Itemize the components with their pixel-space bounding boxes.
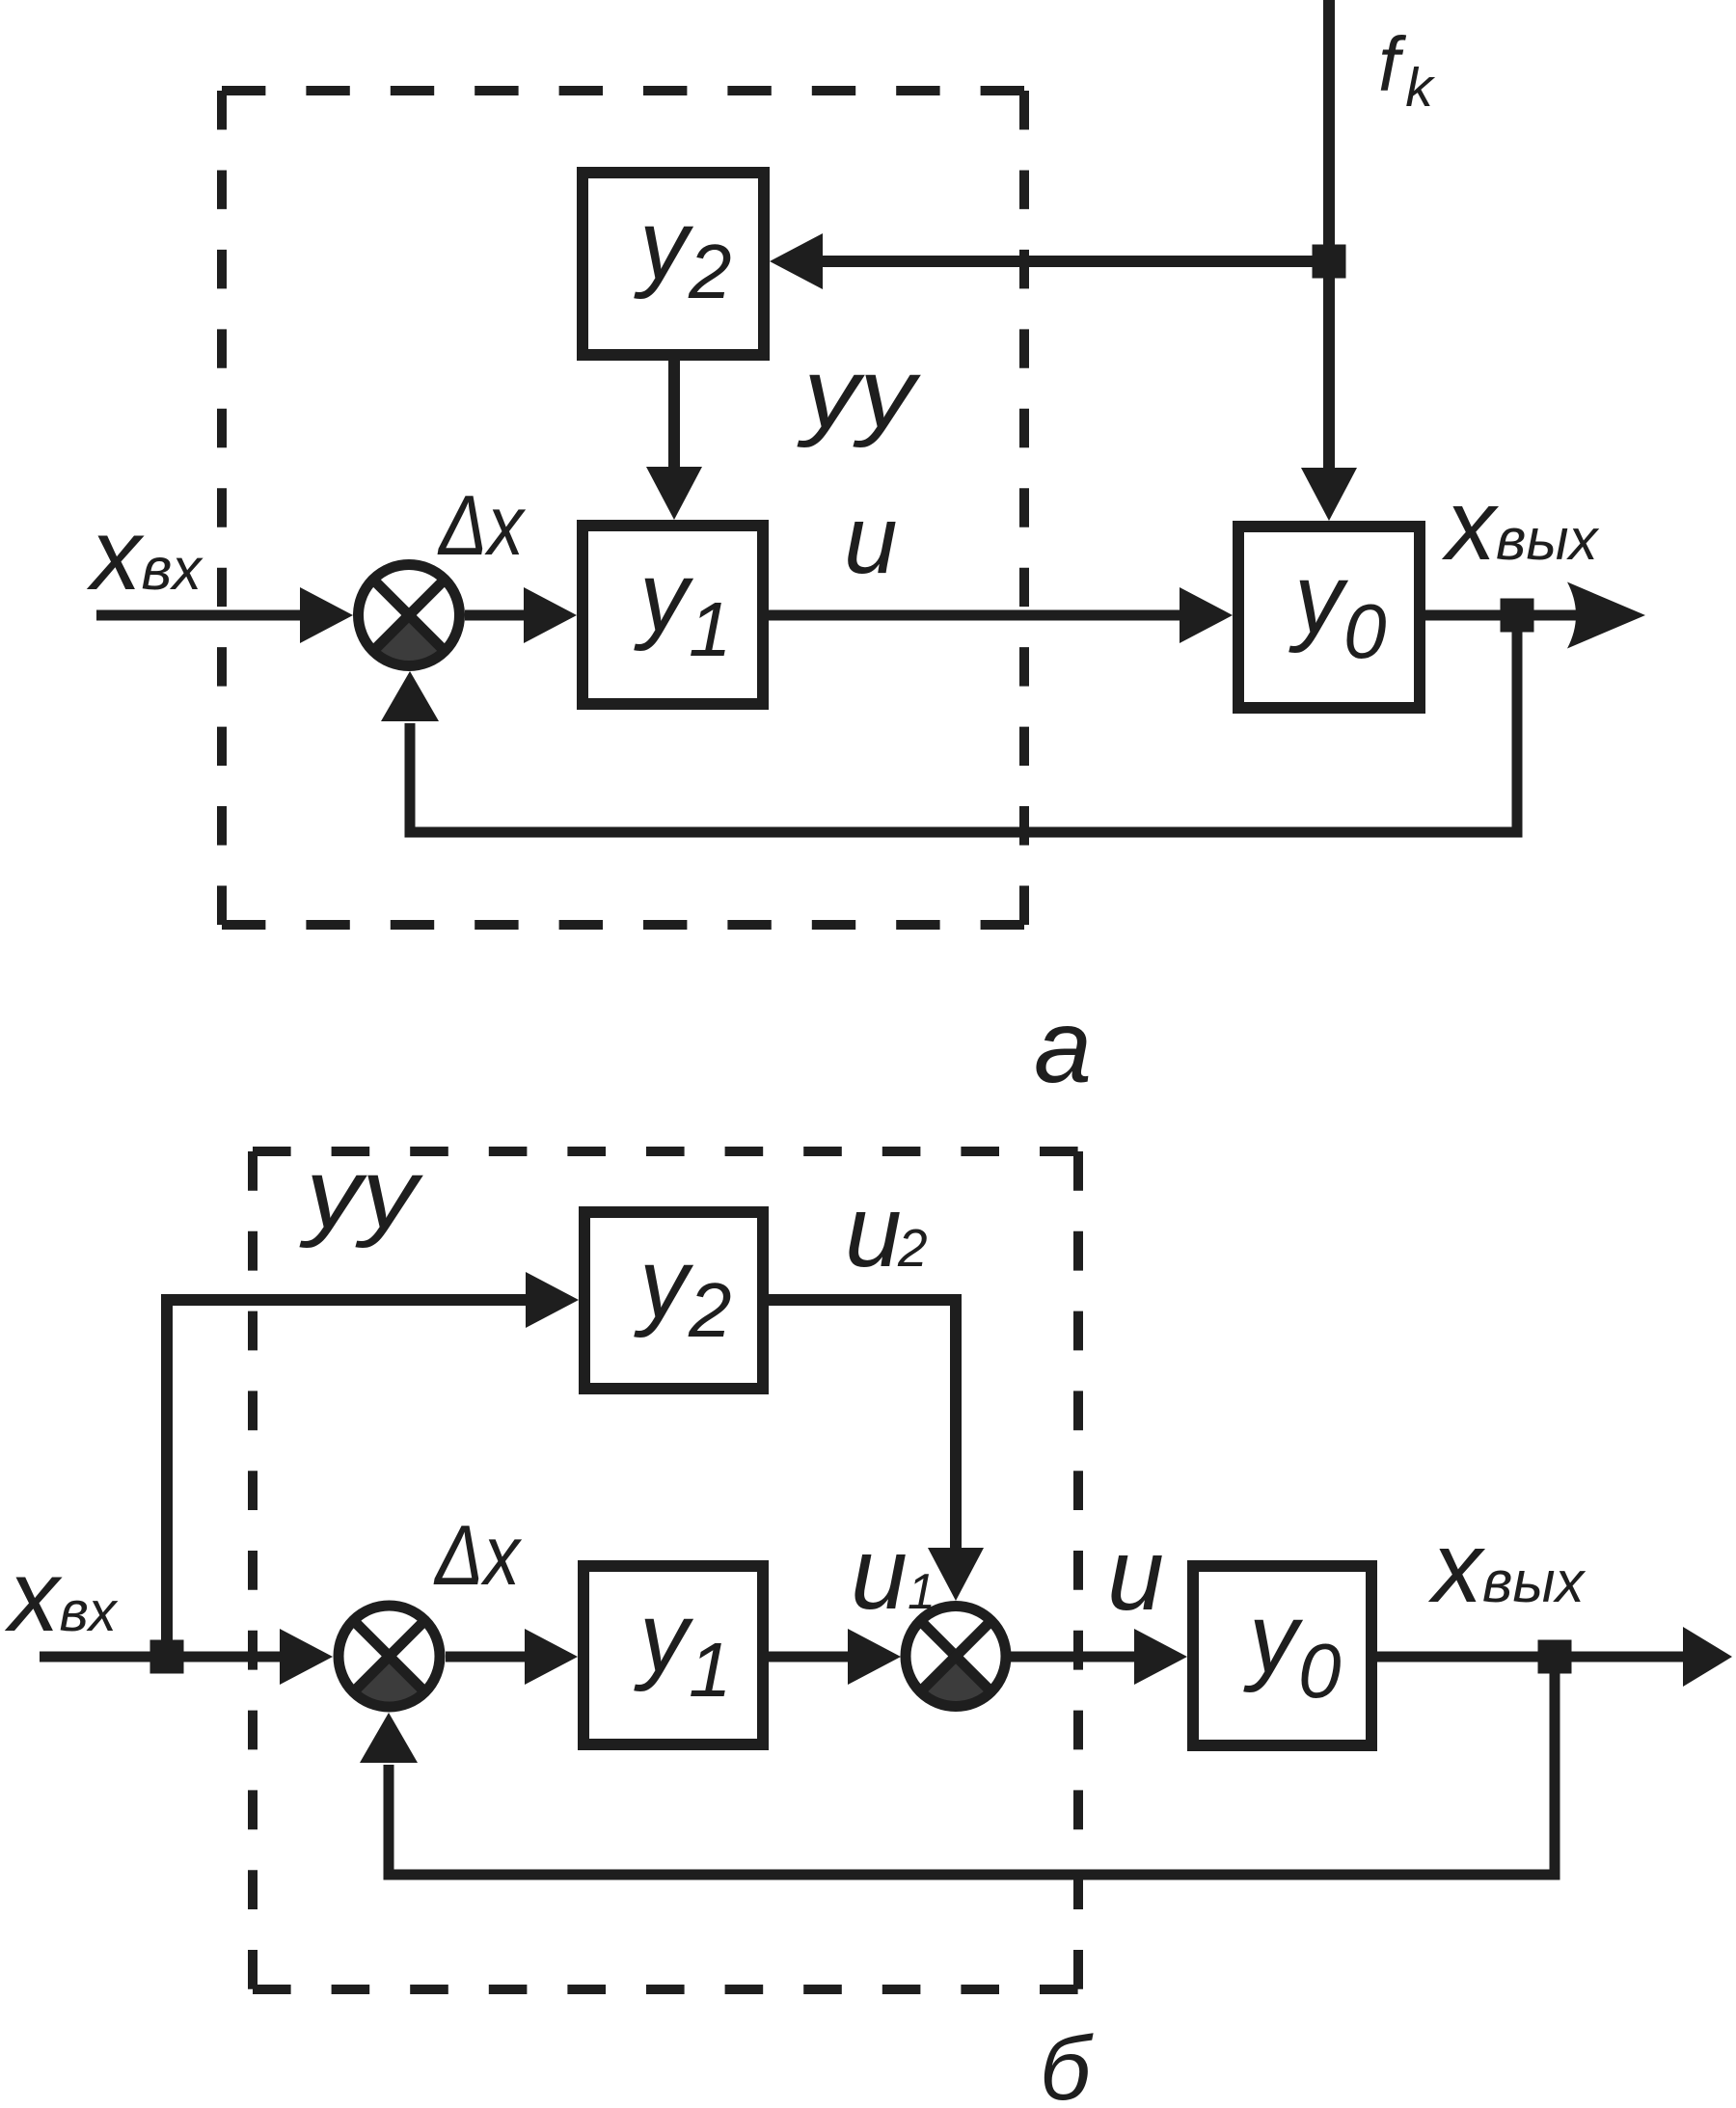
block У1 (diagram a) bbox=[583, 526, 763, 704]
arrowhead f_k into У0 top bbox=[1301, 468, 1357, 521]
arrowhead into У1 top bbox=[646, 467, 702, 520]
junction node output b bbox=[1538, 1640, 1572, 1674]
dashed box УУ (diagram a) left side bbox=[217, 91, 227, 925]
arrowhead into summing junction 1 (b) bbox=[280, 1629, 333, 1685]
arrowhead into У0 left (b) bbox=[1134, 1629, 1187, 1685]
block У0 (diagram b) bbox=[1193, 1566, 1371, 1745]
wire branch f_k to У2 bbox=[821, 256, 1329, 267]
svg-text:хвх: хвх bbox=[4, 1540, 119, 1653]
dashed box УУ (diagram a) right side bbox=[1019, 91, 1029, 925]
svg-text:б: б bbox=[1040, 2017, 1094, 2108]
arrowhead into У1 left (b) bbox=[525, 1629, 578, 1685]
svg-text:хвых: хвых bbox=[1441, 470, 1599, 581]
svg-text:уу: уу bbox=[797, 338, 922, 448]
wire f_k vertical input bbox=[1323, 0, 1335, 474]
arrowhead feedback into sum1 bottom (b) bbox=[360, 1713, 418, 1763]
wire junction up and right to У2 (b) bbox=[167, 1300, 528, 1657]
summing junction a bbox=[359, 565, 460, 666]
dashed box УУ (diagram b) left side bbox=[248, 1151, 258, 1989]
svg-text:fk: fk bbox=[1378, 21, 1435, 119]
dashed box УУ (diagram a) bottom side bbox=[222, 920, 1024, 930]
arrowhead into У1 left bbox=[524, 587, 577, 643]
junction node output a bbox=[1501, 599, 1534, 633]
arrowhead feedback into sum a bottom bbox=[381, 671, 439, 721]
block У2 (diagram a) bbox=[583, 173, 764, 355]
svg-text:хвх: хвх bbox=[86, 499, 203, 611]
arrowhead into sum2 top (b) bbox=[928, 1548, 984, 1601]
svg-text:уу: уу bbox=[299, 1139, 424, 1249]
block У0 (diagram a) bbox=[1238, 527, 1420, 708]
arrowhead output a (curved back) bbox=[1567, 582, 1645, 649]
arrowhead into У0 left bbox=[1180, 587, 1233, 643]
block У1 (diagram b) bbox=[583, 1566, 763, 1744]
wire У1 to sum2 (b) bbox=[769, 1652, 850, 1662]
dashed box УУ (diagram b) top side bbox=[253, 1147, 1078, 1156]
block У2 (diagram b) bbox=[584, 1212, 763, 1389]
dashed box УУ (diagram b) right side bbox=[1073, 1151, 1083, 1989]
wire input x_вх (diagram b) bbox=[40, 1652, 284, 1662]
svg-text:u: u bbox=[844, 486, 898, 594]
dashed box УУ (diagram b) bottom side bbox=[253, 1985, 1078, 1994]
svg-text:Δx: Δx bbox=[437, 477, 526, 573]
wire sum a to У1 bbox=[465, 610, 528, 621]
arrowhead into У2 left (b) bbox=[526, 1272, 579, 1328]
dashed box УУ (diagram a) top side bbox=[222, 86, 1024, 95]
arrowhead into У2 right side bbox=[770, 233, 823, 289]
wire У1 to У0 bbox=[769, 610, 1182, 621]
junction node on f_k line bbox=[1313, 245, 1346, 279]
svg-text:u2: u2 bbox=[845, 1175, 928, 1288]
wire sum1 to У1 (b) bbox=[446, 1652, 528, 1662]
arrowhead into summing junction a bbox=[300, 587, 353, 643]
wire У2 output right then down to sum2 (b) bbox=[769, 1300, 956, 1550]
wire У0 to output (diagram b) bbox=[1377, 1652, 1688, 1662]
arrowhead into sum2 left (b) bbox=[848, 1629, 901, 1685]
summing junction 1 (diagram b) bbox=[339, 1606, 440, 1707]
wire input x_вх (diagram a) bbox=[96, 610, 304, 621]
wire sum2 to У0 (b) bbox=[1006, 1652, 1136, 1662]
wire feedback (diagram a) bbox=[410, 632, 1517, 832]
wire У0 to output (diagram a) bbox=[1425, 610, 1589, 621]
arrowhead output b bbox=[1683, 1627, 1732, 1687]
svg-text:хвых: хвых bbox=[1427, 1512, 1586, 1624]
svg-text:Δx: Δx bbox=[433, 1507, 522, 1603]
junction node input (b) bbox=[150, 1640, 184, 1674]
svg-text:u: u bbox=[1107, 1518, 1164, 1632]
summing junction 2 (diagram b) bbox=[906, 1607, 1006, 1707]
wire feedback (diagram b) bbox=[389, 1673, 1555, 1875]
svg-text:а: а bbox=[1034, 987, 1092, 1104]
wire У2 to У1 (vertical) bbox=[668, 361, 680, 471]
